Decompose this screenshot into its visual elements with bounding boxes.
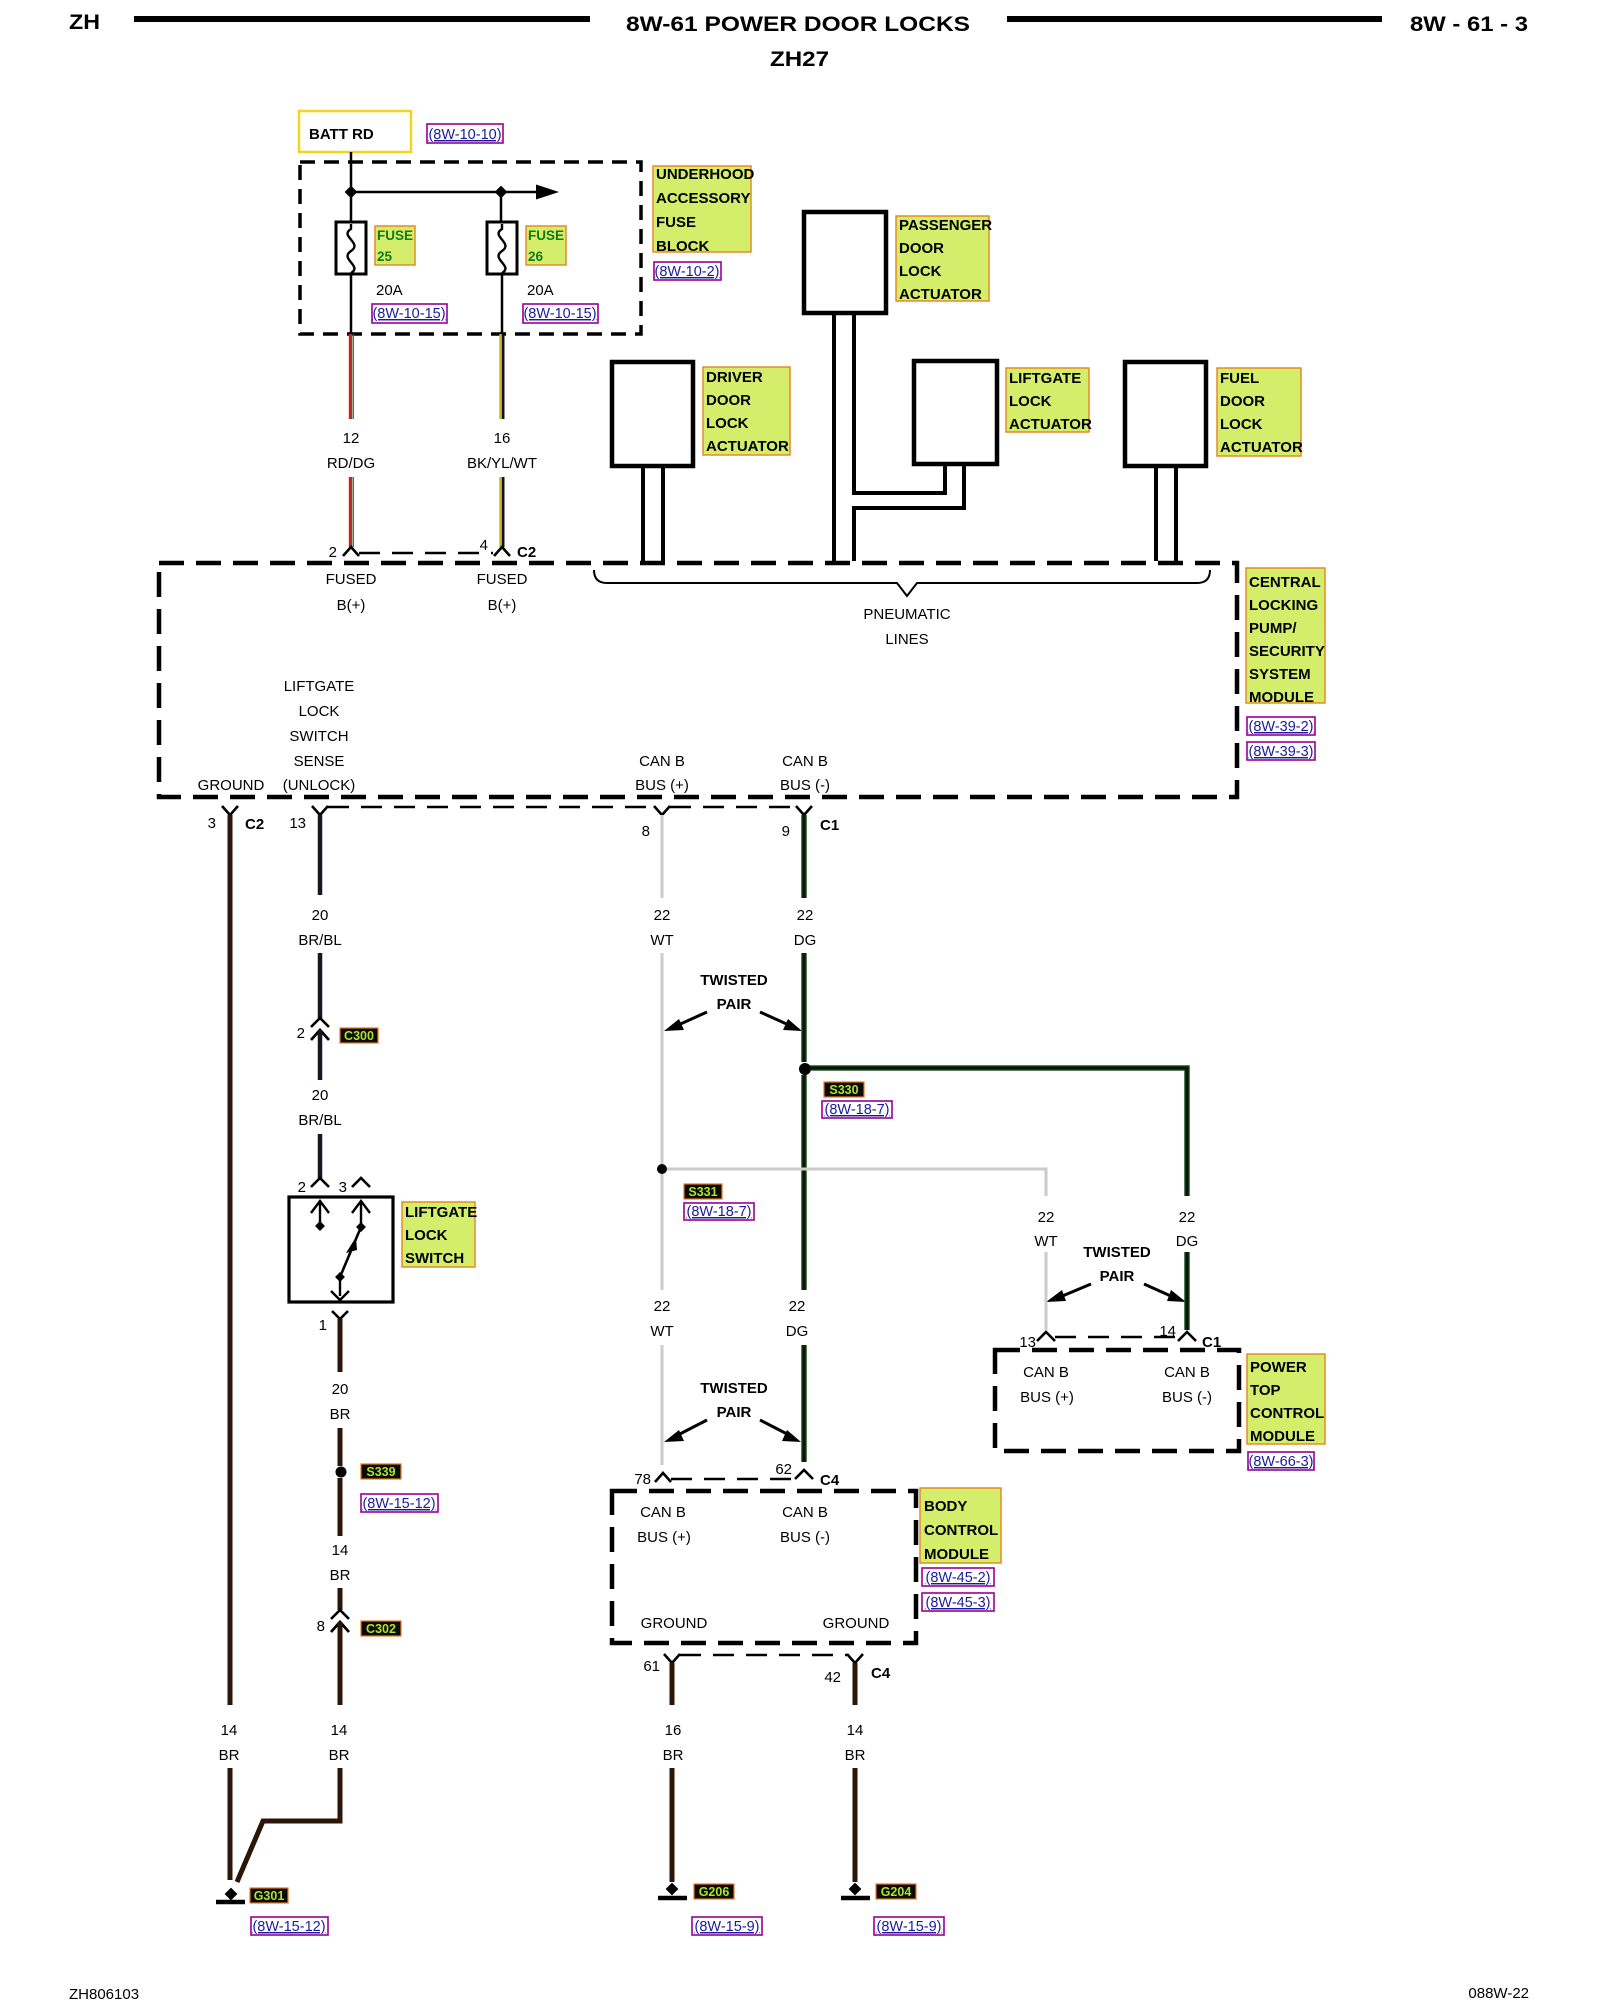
wire BR/BL to switch <box>318 1134 323 1178</box>
switch contact arrow pin2 <box>319 1201 321 1226</box>
svg-text:14: 14 <box>332 1542 349 1559</box>
svg-text:20: 20 <box>332 1381 349 1398</box>
label POWER TOP CONTROL MODULE <box>1247 1354 1325 1444</box>
svg-text:B(+): B(+) <box>488 597 517 614</box>
wire BR to C302 <box>338 1588 343 1610</box>
twisted pair arrow right upper <box>760 1012 791 1026</box>
svg-text:LOCK: LOCK <box>899 263 942 280</box>
svg-text:20: 20 <box>312 1087 329 1104</box>
svg-text:3: 3 <box>208 815 216 832</box>
svg-text:(8W-45-3): (8W-45-3) <box>926 1595 991 1611</box>
svg-text:8: 8 <box>317 1618 325 1635</box>
svg-text:(UNLOCK): (UNLOCK) <box>283 777 356 794</box>
svg-text:4: 4 <box>480 537 488 554</box>
passenger door lock actuator <box>804 212 886 313</box>
ground G206 <box>666 1883 679 1896</box>
junction at fuse 25 feed <box>345 186 358 199</box>
svg-text:GROUND: GROUND <box>641 1615 708 1632</box>
link 8W-10-15 right <box>523 304 598 323</box>
svg-text:BR: BR <box>330 1567 351 1584</box>
svg-text:G204: G204 <box>881 1885 912 1899</box>
pin row dashed link <box>359 552 493 554</box>
wire BR to G206 <box>670 1768 675 1882</box>
svg-text:C4: C4 <box>871 1665 891 1682</box>
link 8W-10-15 left <box>372 304 447 323</box>
label PASSENGER DOOR LOCK ACTUATOR <box>896 216 989 301</box>
central locking pump module box <box>159 563 1237 797</box>
svg-text:61: 61 <box>643 1658 660 1675</box>
link 8W-66-3 <box>1248 1452 1314 1470</box>
fuse F25 <box>336 222 366 274</box>
svg-text:20A: 20A <box>527 282 554 299</box>
svg-text:LOCK: LOCK <box>299 703 340 720</box>
pneumatic line passenger right to liftgate <box>854 313 945 493</box>
svg-text:PAIR: PAIR <box>1100 1268 1135 1285</box>
svg-text:13: 13 <box>289 815 306 832</box>
wire WT branch to pin 13 <box>1045 1252 1048 1330</box>
svg-text:BLOCK: BLOCK <box>656 238 709 255</box>
svg-text:DRIVER: DRIVER <box>706 369 763 386</box>
svg-text:BATT RD: BATT RD <box>309 126 374 143</box>
svg-text:TWISTED: TWISTED <box>1083 1244 1151 1261</box>
node BATT RD <box>299 111 411 152</box>
svg-text:BUS (-): BUS (-) <box>1162 1389 1212 1406</box>
svg-text:BUS (-): BUS (-) <box>780 1529 830 1546</box>
header rule right <box>1007 16 1382 22</box>
splice S331 <box>657 1164 667 1174</box>
wire BR from switch <box>338 1319 343 1372</box>
svg-text:POWER: POWER <box>1250 1359 1307 1376</box>
svg-text:(8W-39-2): (8W-39-2) <box>1249 719 1314 735</box>
svg-text:BR: BR <box>663 1747 684 1764</box>
twisted pair arrow left lower <box>676 1420 707 1436</box>
body control module box <box>612 1491 916 1643</box>
wire RD/DG upper segment <box>349 334 352 419</box>
svg-text:CAN B: CAN B <box>640 1504 686 1521</box>
svg-text:ZH806103: ZH806103 <box>69 1986 139 2000</box>
pin row dashed power top <box>1055 1336 1178 1338</box>
svg-text:20: 20 <box>312 907 329 924</box>
svg-text:LIFTGATE: LIFTGATE <box>284 678 355 695</box>
label LIFTGATE LOCK SWITCH <box>402 1202 475 1267</box>
wire BR to G204 <box>853 1768 858 1882</box>
svg-text:PAIR: PAIR <box>717 996 752 1013</box>
svg-text:22: 22 <box>654 1298 671 1315</box>
wire BR ground lower <box>228 1768 233 1880</box>
wire fuse 26 feed <box>500 192 503 222</box>
svg-text:(8W-10-15): (8W-10-15) <box>372 306 445 322</box>
pin row dashed bcm top <box>671 1478 795 1480</box>
svg-text:PNEUMATIC: PNEUMATIC <box>863 606 950 623</box>
svg-text:62: 62 <box>775 1461 792 1478</box>
twisted pair arrow left right-set <box>1060 1284 1091 1297</box>
wire WT branch S331 to power top <box>667 1169 1046 1196</box>
liftgate lock switch box <box>289 1197 393 1302</box>
wire fuse 25 out <box>350 274 353 334</box>
svg-text:ACCESSORY: ACCESSORY <box>656 190 750 207</box>
splice S330 <box>799 1063 811 1075</box>
wire BR from pin 61 <box>670 1663 675 1705</box>
svg-text:C4: C4 <box>820 1472 840 1489</box>
svg-text:14: 14 <box>847 1722 864 1739</box>
svg-text:LIFTGATE: LIFTGATE <box>405 1204 477 1221</box>
wire DG below S330 <box>801 1075 807 1290</box>
wire DG branch to pin 14 <box>1184 1252 1190 1330</box>
pin row dashed bottom right <box>670 806 796 808</box>
liftgate lock actuator <box>914 361 997 464</box>
svg-text:DOOR: DOOR <box>706 392 751 409</box>
svg-text:CENTRAL: CENTRAL <box>1249 574 1321 591</box>
svg-text:2: 2 <box>329 544 337 561</box>
svg-text:MODULE: MODULE <box>1250 1428 1315 1445</box>
connector C300 <box>311 1018 329 1027</box>
fuse F26 <box>487 222 517 274</box>
svg-text:DOOR: DOOR <box>899 240 944 257</box>
label CENTRAL LOCKING PUMP/SECURITY SYSTEM MODULE <box>1246 568 1325 703</box>
pneumatic line passenger left <box>832 313 836 561</box>
svg-text:SENSE: SENSE <box>294 753 345 770</box>
svg-text:(8W-10-10): (8W-10-10) <box>428 127 501 143</box>
svg-text:LOCKING: LOCKING <box>1249 597 1318 614</box>
svg-text:LIFTGATE: LIFTGATE <box>1009 370 1081 387</box>
svg-text:CAN B: CAN B <box>639 753 685 770</box>
svg-text:S331: S331 <box>688 1185 717 1199</box>
wire BR ground from pin 3 <box>228 815 233 1705</box>
wire WT to pin 78 <box>661 1345 664 1465</box>
wire BK/YL/WT lower segment <box>499 477 502 547</box>
svg-text:PASSENGER: PASSENGER <box>899 217 992 234</box>
svg-text:LOCK: LOCK <box>706 415 749 432</box>
svg-text:WT: WT <box>650 932 673 949</box>
pin 78 connector <box>655 1473 671 1482</box>
svg-text:PUMP/: PUMP/ <box>1249 620 1297 637</box>
svg-text:16: 16 <box>665 1722 682 1739</box>
svg-text:ZH: ZH <box>69 11 100 34</box>
svg-text:(8W-15-9): (8W-15-9) <box>695 1919 760 1935</box>
wire WT below S331 <box>661 1174 664 1290</box>
svg-text:(8W-10-15): (8W-10-15) <box>523 306 596 322</box>
svg-text:BUS (-): BUS (-) <box>780 777 830 794</box>
link 8W-39-3 <box>1247 742 1315 760</box>
pin 8 connector <box>654 806 670 815</box>
svg-text:BUS (+): BUS (+) <box>1020 1389 1074 1406</box>
svg-text:1: 1 <box>319 1317 327 1334</box>
switch bottom contact <box>339 1277 341 1296</box>
svg-text:DG: DG <box>786 1323 809 1340</box>
wire fuse 26 out <box>501 274 504 334</box>
wire BR/BL below C300 <box>318 1030 323 1080</box>
svg-text:22: 22 <box>1179 1209 1196 1226</box>
svg-text:22: 22 <box>1038 1209 1055 1226</box>
label BODY CONTROL MODULE <box>920 1488 1001 1563</box>
svg-text:(8W-15-9): (8W-15-9) <box>877 1919 942 1935</box>
link 8W-10-2 <box>654 262 721 280</box>
svg-text:25: 25 <box>377 249 393 264</box>
link 8W-18-7 S331 <box>684 1203 754 1220</box>
wire DG to S330 <box>801 953 807 1062</box>
label FUSE 26 <box>526 226 566 265</box>
wire BR/BL from pin 13 <box>318 815 323 895</box>
svg-text:26: 26 <box>528 249 544 264</box>
wire bus arrow <box>351 191 538 194</box>
svg-text:BODY: BODY <box>924 1498 967 1515</box>
svg-text:14: 14 <box>331 1722 348 1739</box>
svg-text:G206: G206 <box>699 1885 730 1899</box>
svg-text:BUS (+): BUS (+) <box>635 777 689 794</box>
svg-text:ZH27: ZH27 <box>770 48 829 71</box>
wire BR to S339 <box>338 1428 343 1466</box>
pin row dashed bottom left <box>328 806 654 808</box>
link 8W-15-12 G301 <box>251 1917 328 1935</box>
switch lever <box>340 1227 361 1277</box>
svg-text:CONTROL: CONTROL <box>924 1522 998 1539</box>
pneumatic lines brace <box>594 570 1210 596</box>
svg-text:FUSE: FUSE <box>528 228 564 243</box>
svg-text:TOP: TOP <box>1250 1382 1281 1399</box>
svg-text:C2: C2 <box>245 816 264 833</box>
svg-text:8W-61 POWER DOOR LOCKS: 8W-61 POWER DOOR LOCKS <box>626 13 970 36</box>
svg-text:(8W-45-2): (8W-45-2) <box>926 1570 991 1586</box>
pin 62 connector <box>795 1470 813 1479</box>
pin 4 connector <box>494 547 510 556</box>
wire DG to pin 62 <box>801 1345 807 1462</box>
svg-text:MODULE: MODULE <box>924 1546 989 1563</box>
svg-text:LOCK: LOCK <box>405 1227 448 1244</box>
svg-text:GROUND: GROUND <box>198 777 265 794</box>
svg-text:PAIR: PAIR <box>717 1404 752 1421</box>
driver door lock actuator <box>612 362 693 466</box>
wire DG branch S330 to power top <box>810 1068 1187 1196</box>
svg-text:C302: C302 <box>366 1622 396 1636</box>
wire BR below S339 <box>338 1478 343 1536</box>
svg-text:3: 3 <box>339 1179 347 1196</box>
pin row dashed bcm bottom <box>680 1654 847 1656</box>
svg-text:LINES: LINES <box>885 631 928 648</box>
svg-text:8W - 61 - 3: 8W - 61 - 3 <box>1410 13 1528 36</box>
label DRIVER DOOR LOCK ACTUATOR <box>703 367 790 455</box>
wire BK/YL/WT upper segment <box>499 334 502 419</box>
svg-text:ACTUATOR: ACTUATOR <box>899 286 982 303</box>
svg-text:C2: C2 <box>517 544 536 561</box>
svg-text:14: 14 <box>221 1722 238 1739</box>
svg-text:WT: WT <box>650 1323 673 1340</box>
wire BR jog to ground <box>237 1768 340 1882</box>
svg-text:SWITCH: SWITCH <box>289 728 348 745</box>
svg-text:CAN B: CAN B <box>1164 1364 1210 1381</box>
switch pin 2 connector <box>311 1178 329 1187</box>
link 8W-10-10 <box>427 124 503 143</box>
svg-text:78: 78 <box>634 1471 651 1488</box>
svg-text:CAN B: CAN B <box>782 753 828 770</box>
svg-text:12: 12 <box>343 430 360 447</box>
wire WT to S331 <box>661 953 664 1164</box>
junction at fuse 26 feed <box>495 186 508 199</box>
svg-text:RD/DG: RD/DG <box>327 455 375 472</box>
svg-text:MODULE: MODULE <box>1249 689 1314 706</box>
link 8W-39-2 <box>1247 717 1315 735</box>
svg-text:FUSE: FUSE <box>656 214 696 231</box>
svg-text:ACTUATOR: ACTUATOR <box>1009 416 1092 433</box>
link 8W-45-3 <box>922 1593 994 1611</box>
pin 13 connector power top <box>1037 1332 1055 1341</box>
pneumatic line liftgate right <box>854 464 964 561</box>
svg-text:BR: BR <box>845 1747 866 1764</box>
svg-text:DG: DG <box>794 932 817 949</box>
svg-text:(8W-10-2): (8W-10-2) <box>655 264 720 280</box>
svg-text:FUSE: FUSE <box>377 228 413 243</box>
svg-text:B(+): B(+) <box>337 597 366 614</box>
svg-text:C300: C300 <box>344 1029 374 1043</box>
wire BR/BL to C300 <box>318 953 323 1018</box>
label LIFTGATE LOCK ACTUATOR <box>1006 368 1089 432</box>
svg-text:BR/BL: BR/BL <box>298 932 341 949</box>
switch contact arrow pin3 <box>360 1201 362 1227</box>
svg-text:BUS (+): BUS (+) <box>637 1529 691 1546</box>
wire BR below C302 <box>338 1622 343 1705</box>
pneumatic lines fuel <box>1154 466 1158 561</box>
wire DG from pin 9 <box>801 815 807 898</box>
svg-text:CONTROL: CONTROL <box>1250 1405 1324 1422</box>
svg-text:DG: DG <box>1176 1233 1199 1250</box>
svg-text:(8W-66-3): (8W-66-3) <box>1249 1454 1314 1470</box>
twisted pair arrow right right-set <box>1144 1284 1173 1297</box>
svg-text:(8W-18-7): (8W-18-7) <box>687 1204 752 1220</box>
svg-text:CAN B: CAN B <box>782 1504 828 1521</box>
ground G301 <box>225 1888 238 1901</box>
svg-text:S339: S339 <box>366 1465 395 1479</box>
link 8W-15-12 S339 <box>361 1494 438 1512</box>
svg-text:42: 42 <box>824 1669 841 1686</box>
svg-text:FUSED: FUSED <box>477 571 528 588</box>
pin 14 connector power top <box>1178 1332 1196 1341</box>
twisted pair arrow left upper <box>676 1012 707 1026</box>
link 8W-15-9 G206 <box>692 1917 762 1935</box>
label UNDERHOOD ACCESSORY FUSE BLOCK <box>653 166 751 252</box>
pin 61 connector <box>664 1654 680 1663</box>
svg-text:UNDERHOOD: UNDERHOOD <box>656 166 755 183</box>
svg-text:SECURITY: SECURITY <box>1249 643 1325 660</box>
svg-text:ACTUATOR: ACTUATOR <box>706 438 789 455</box>
splice S339 <box>336 1467 347 1478</box>
switch pin 3 connector <box>352 1178 370 1187</box>
twisted pair arrow right lower <box>760 1420 791 1436</box>
svg-text:BR: BR <box>330 1406 351 1423</box>
svg-text:BK/YL/WT: BK/YL/WT <box>467 455 537 472</box>
pin 9 connector <box>796 806 812 815</box>
svg-text:SWITCH: SWITCH <box>405 1250 464 1267</box>
label FUEL DOOR LOCK ACTUATOR <box>1217 368 1301 456</box>
svg-text:ACTUATOR: ACTUATOR <box>1220 439 1303 456</box>
svg-text:TWISTED: TWISTED <box>700 1380 768 1397</box>
connector C302 <box>331 1610 349 1619</box>
svg-text:DOOR: DOOR <box>1220 393 1265 410</box>
svg-text:C1: C1 <box>820 817 839 834</box>
pin 2 connector <box>343 547 359 556</box>
pin 42 connector <box>847 1654 863 1663</box>
svg-text:TWISTED: TWISTED <box>700 972 768 989</box>
svg-text:FUSED: FUSED <box>326 571 377 588</box>
wire RD/DG lower segment <box>349 477 352 547</box>
svg-text:(8W-15-12): (8W-15-12) <box>252 1919 325 1935</box>
svg-text:20A: 20A <box>376 282 403 299</box>
link 8W-15-9 G204 <box>874 1917 944 1935</box>
wire BR from pin 42 <box>853 1663 858 1705</box>
svg-text:9: 9 <box>782 823 790 840</box>
svg-text:CAN B: CAN B <box>1023 1364 1069 1381</box>
svg-text:088W-22: 088W-22 <box>1468 1985 1529 2000</box>
svg-text:WT: WT <box>1034 1233 1057 1250</box>
svg-text:GROUND: GROUND <box>823 1615 890 1632</box>
wire WT from pin 8 <box>661 815 664 898</box>
svg-text:(8W-39-3): (8W-39-3) <box>1249 744 1314 760</box>
svg-text:22: 22 <box>654 907 671 924</box>
pneumatic lines driver <box>641 466 645 561</box>
header rule left <box>134 16 590 22</box>
link 8W-18-7 S330 <box>822 1101 892 1118</box>
svg-text:SYSTEM: SYSTEM <box>1249 666 1311 683</box>
label FUSE 25 <box>375 226 415 265</box>
underhood accessory fuse block box <box>300 162 641 334</box>
svg-text:2: 2 <box>297 1025 305 1042</box>
svg-text:22: 22 <box>797 907 814 924</box>
pin 3 connector <box>222 806 238 815</box>
svg-text:FUEL: FUEL <box>1220 370 1259 387</box>
switch pin 1 connector <box>332 1311 348 1319</box>
link 8W-45-2 <box>922 1568 994 1586</box>
svg-text:G301: G301 <box>254 1889 285 1903</box>
svg-text:BR: BR <box>219 1747 240 1764</box>
svg-text:BR: BR <box>329 1747 350 1764</box>
wire batt feed <box>350 152 353 222</box>
pin 13 connector <box>312 806 328 815</box>
svg-text:8: 8 <box>642 823 650 840</box>
svg-text:2: 2 <box>298 1179 306 1196</box>
svg-text:(8W-15-12): (8W-15-12) <box>362 1496 435 1512</box>
svg-text:LOCK: LOCK <box>1009 393 1052 410</box>
svg-text:22: 22 <box>789 1298 806 1315</box>
fuel door lock actuator <box>1125 362 1206 466</box>
svg-text:(8W-18-7): (8W-18-7) <box>825 1102 890 1118</box>
svg-text:S330: S330 <box>829 1083 858 1097</box>
svg-text:LOCK: LOCK <box>1220 416 1263 433</box>
svg-text:14: 14 <box>1159 1323 1176 1340</box>
svg-text:BR/BL: BR/BL <box>298 1112 341 1129</box>
power top control module box <box>995 1350 1239 1451</box>
ground G204 <box>849 1883 862 1896</box>
svg-text:16: 16 <box>494 430 511 447</box>
